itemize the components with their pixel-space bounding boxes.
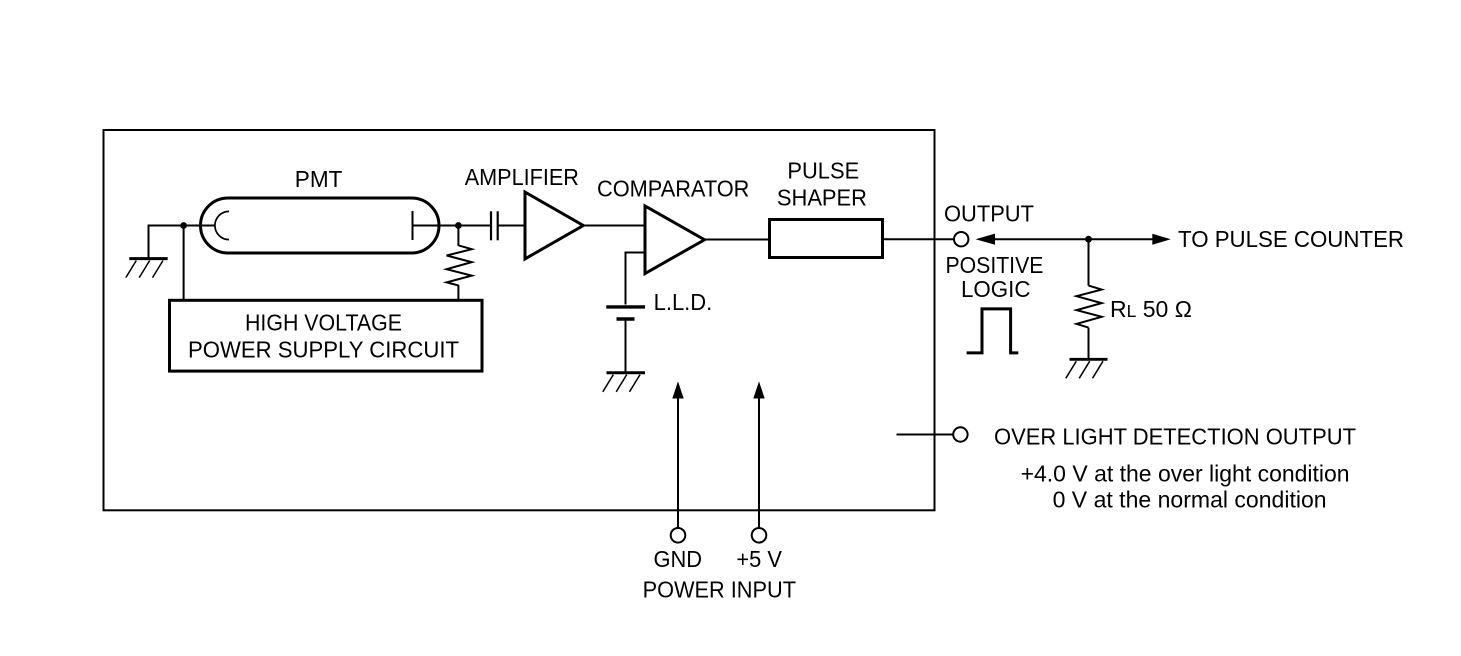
svg-text:LOGIC: LOGIC — [961, 276, 1031, 302]
svg-text:L.L.D.: L.L.D. — [654, 289, 713, 315]
svg-text:POWER SUPPLY CIRCUIT: POWER SUPPLY CIRCUIT — [188, 337, 459, 363]
svg-text:PULSE: PULSE — [787, 157, 859, 183]
svg-text:+5 V: +5 V — [736, 546, 782, 572]
svg-text:PMT: PMT — [295, 166, 343, 192]
svg-text:COMPARATOR: COMPARATOR — [597, 176, 749, 202]
svg-text:POSITIVE: POSITIVE — [946, 252, 1044, 278]
svg-text:POWER INPUT: POWER INPUT — [643, 577, 796, 603]
svg-text:AMPLIFIER: AMPLIFIER — [465, 164, 579, 190]
svg-text:0 V at the normal condition: 0 V at the normal condition — [1053, 487, 1327, 513]
svg-text:+4.0 V at the over light condi: +4.0 V at the over light condition — [1021, 461, 1350, 487]
svg-text:SHAPER: SHAPER — [777, 184, 867, 210]
svg-text:OUTPUT: OUTPUT — [944, 201, 1034, 227]
svg-text:TO PULSE COUNTER: TO PULSE COUNTER — [1178, 226, 1404, 252]
svg-text:HIGH VOLTAGE: HIGH VOLTAGE — [245, 310, 402, 336]
svg-text:RL 50 Ω: RL 50 Ω — [1110, 296, 1192, 322]
svg-text:GND: GND — [654, 546, 703, 572]
svg-text:OVER LIGHT DETECTION OUTPUT: OVER LIGHT DETECTION OUTPUT — [994, 424, 1356, 450]
